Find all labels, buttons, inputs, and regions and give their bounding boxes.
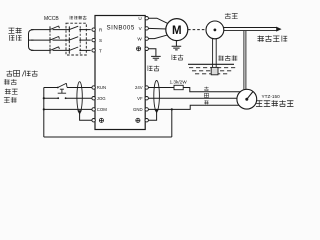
terminal PE lower right (145, 119, 148, 122)
terminal JOG (92, 97, 95, 100)
pipe pump suction (213, 36, 217, 73)
wire shield drain to PE right (148, 112, 156, 120)
terminal S (92, 38, 95, 41)
wire shield drain to PE left (80, 113, 92, 120)
terminal U (145, 17, 148, 20)
terminal GND (145, 108, 148, 111)
svg-text:24V: 24V (135, 85, 143, 90)
wire PE to ground (148, 49, 156, 56)
terminal V (145, 27, 148, 30)
shielded cable marker right (154, 81, 160, 112)
label 红 (red wire) (204, 100, 208, 104)
svg-text:T: T (99, 48, 102, 53)
wire phase L2 to MCCB (31, 39, 50, 41)
leakage switch linkage left (68, 26, 70, 54)
label 水泵 (pump) (225, 13, 231, 19)
svg-text:RUN: RUN (97, 85, 106, 90)
wire COM line (44, 108, 92, 110)
svg-text:MCCB: MCCB (44, 16, 59, 22)
svg-text:COM: COM (97, 107, 107, 112)
wire MCCB pole 2 to contactor (53, 39, 70, 41)
circuit breaker MCCB pole 1 (50, 26, 59, 33)
wire W to motor (148, 35, 168, 39)
wire V to motor (148, 27, 167, 30)
label 远程压力表 (remote pressure gauge) (256, 100, 263, 106)
terminal W (145, 37, 148, 40)
svg-text:GND: GND (133, 107, 143, 112)
label 进水口 (inlet) (218, 55, 224, 60)
shielded cable marker left (77, 82, 82, 113)
terminal T (92, 49, 95, 52)
wire MCCB pole 3 to contactor (53, 49, 70, 51)
label 开关 (switch) (4, 79, 10, 85)
label 点动 (jog) (5, 89, 11, 95)
label 按钮 (button) (4, 97, 10, 103)
label 漏电开关 (leakage switch) (70, 16, 73, 20)
wire GND (148, 105, 240, 109)
junction at common/JOG (43, 97, 45, 99)
wire bottom common rail (44, 136, 172, 138)
wire common vertical (43, 88, 45, 138)
leakage switch pole 2 (69, 37, 78, 43)
pump P1 (206, 21, 224, 39)
pipe pump outlet (223, 28, 277, 31)
svg-text:VF: VF (137, 96, 143, 101)
switch S1 run/stop (57, 87, 59, 89)
svg-text:M: M (172, 25, 182, 37)
svg-text:U: U (138, 16, 141, 21)
terminal COM (92, 108, 95, 111)
motor M1 (166, 19, 188, 41)
junction rail/GND wire (171, 108, 173, 110)
net label 三相电源 (three-phase supply) (8, 28, 14, 34)
wire pole 1 to inverter (80, 29, 91, 31)
leakage switch pole 3 (69, 47, 78, 53)
svg-text:SINB005: SINB005 (107, 24, 135, 31)
pressure gauge PG1 (237, 89, 257, 109)
wire U to motor (148, 18, 168, 23)
wire 24V (148, 88, 241, 92)
wire pole 3 to inverter (80, 49, 91, 51)
wire phase L3 to MCCB (31, 49, 50, 51)
water hatching (189, 68, 235, 74)
circuit breaker MCCB linkage (49, 26, 51, 54)
wire pole 2 to inverter (80, 39, 91, 41)
flow arrow 出水 (276, 27, 281, 32)
wire rail riser right (171, 109, 173, 137)
leakage switch enclosure (dashed) (66, 23, 86, 55)
circuit breaker MCCB pole 2 (50, 36, 59, 43)
terminal RUN (92, 86, 95, 89)
three-phase source bracket (29, 30, 34, 51)
inverter U1 box (95, 16, 145, 130)
terminal VF (145, 97, 148, 100)
wire RUN switch line (44, 87, 92, 89)
terminal R (92, 28, 95, 31)
foot valve (211, 67, 218, 74)
ground inverter (151, 56, 161, 60)
leakage switch pole 1 (69, 26, 78, 32)
junction at common/COM (43, 108, 45, 110)
circuit breaker MCCB pole 3 (50, 47, 59, 54)
svg-text:JOG: JOG (97, 96, 106, 101)
label 接地 motor (172, 55, 177, 60)
label 黄 (yellow wire) (204, 93, 208, 97)
wire MCCB pole 1 to contactor (53, 29, 70, 31)
label 接地 inverter (148, 66, 153, 71)
label 蓝 (blue wire) (204, 87, 208, 91)
svg-text:YTZ-150: YTZ-150 (262, 94, 281, 99)
wire phase L1 to MCCB (31, 29, 50, 31)
wire JOG button line (44, 97, 92, 99)
resistor R1 (174, 85, 183, 89)
pushbutton SB jog (57, 97, 59, 99)
label 出水管网 (outlet mains) (257, 35, 264, 41)
water surface (188, 63, 234, 65)
terminal PE upper right (145, 47, 148, 50)
label 运行/停止 (run/stop) (6, 70, 12, 76)
terminal 24V (145, 86, 148, 89)
svg-text:1.3k/2W: 1.3k/2W (170, 80, 188, 85)
leakage switch linkage right (79, 26, 81, 54)
pipe pressure tap (244, 31, 246, 90)
svg-text:W: W (137, 36, 142, 41)
terminal PE left (92, 119, 95, 122)
wire VF (148, 97, 238, 99)
svg-text:S: S (99, 38, 102, 43)
shaft coupling (dashed) (188, 29, 206, 31)
ground motor (172, 41, 182, 50)
